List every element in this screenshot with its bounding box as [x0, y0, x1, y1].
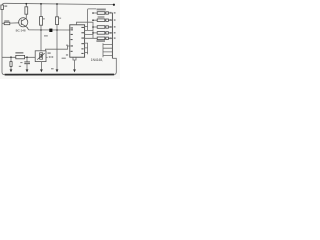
resistor R7 (vertical at x11): [10, 62, 12, 67]
junction dot bus row1: [92, 12, 94, 14]
wire: rail down through R5 to ground: [56, 4, 58, 70]
preset VR1: [35, 51, 46, 62]
ground arrow (IC): [73, 69, 76, 72]
resistor R3 (horizontal, transistor base): [4, 22, 10, 25]
wire: IC bottom pins to ground: [73, 57, 77, 69]
wire: x11 down to ground: [10, 57, 12, 69]
polarity label C2: [20, 62, 22, 63]
diode D1 (dark blob in bus): [49, 29, 52, 32]
ground arrow (x11): [10, 69, 13, 72]
resistor R5 (vertical at x57): [56, 17, 59, 25]
svg-text:BC 548: BC 548: [16, 29, 26, 33]
op-amp U1 (IC body): [70, 25, 85, 57]
junction dot bus row4: [92, 32, 94, 34]
wire: rail down through R4 to preset: [40, 4, 42, 52]
junction dot (x57 on bus): [56, 29, 58, 31]
node A junction dot (x41 on bus): [40, 29, 42, 31]
junction dot (top rail x57): [56, 3, 58, 5]
wire: preset bottom pin to ground: [40, 61, 42, 69]
small label right of R7: [19, 66, 21, 67]
wire: rail to R2 to collector: [25, 4, 27, 19]
resistor R2 (vertical, collector): [25, 7, 28, 14]
capacitor C2: [26, 57, 28, 61]
wire: top supply rail: [2, 3, 114, 6]
connector bracket: [111, 13, 113, 59]
wire: IC top pin riser and feed: [77, 22, 94, 38]
output row 4: wire + resistor: [93, 32, 112, 34]
pin 7 label mark: [66, 54, 68, 55]
wire: preset right pin + marks: [46, 56, 48, 58]
junction dot bus row3: [92, 26, 94, 28]
small label left of ground arrow: [51, 68, 54, 69]
pin number marks inside IC left: [71, 27, 73, 28]
pin 5 label mark: [66, 45, 68, 46]
label above connector: [96, 40, 105, 42]
output row 2: wire + resistor: [93, 19, 112, 21]
wire: IC lower right pins: [85, 43, 88, 54]
wire: bottom-right corner riser: [112, 58, 116, 74]
small label under bus: [44, 35, 48, 36]
small label right of R4: [43, 18, 45, 19]
label under IC bottom-left: [62, 58, 66, 59]
output row 1: wire + resistor: [93, 12, 112, 14]
wire: bottom ground rail: [5, 74, 115, 76]
junction dot (top rail / R2): [25, 3, 27, 5]
pin number marks inside IC right: [81, 27, 84, 28]
wire: base wire from left rail to Q1: [2, 22, 19, 25]
resistor R1 (on left rail, top): [1, 5, 4, 10]
output row 5: wire + resistor: [93, 37, 112, 39]
wire: IC right pins to bus x93: [85, 30, 93, 38]
terminal dot (top rail end): [113, 4, 115, 6]
svg-text:1N4148,: 1N4148,: [91, 58, 103, 62]
connector CON1 bus: [102, 43, 104, 57]
ground arrow (preset): [40, 69, 43, 72]
wire: left supply rail: [2, 6, 5, 75]
resistor R4 (vertical at x41): [40, 17, 43, 26]
pin 5 stub left of IC: [67, 45, 70, 47]
transistor Q1 BC548: [19, 18, 29, 30]
output row 3: wire + resistor: [93, 26, 112, 28]
connector pins: [103, 45, 112, 56]
wire: lower-left net y=57.3: [2, 56, 35, 58]
value label R1: [4, 5, 7, 6]
wire: emitter bus y=30: [29, 29, 70, 31]
wire: preset wiper to IC pin 5: [46, 46, 68, 51]
junction dot bus row2: [92, 19, 94, 21]
junction dot (top rail x41): [40, 3, 42, 5]
ground arrow (x57): [56, 69, 59, 72]
wire: IC pin1 riser to y9 feed: [85, 9, 97, 31]
ground arrow (C2): [26, 69, 29, 72]
junction dot (x27 lower net): [26, 56, 28, 58]
junction dot (x11 lower net): [10, 56, 12, 58]
value label R6: [15, 52, 23, 54]
resistor R6 (horizontal, lower left): [16, 55, 25, 58]
background: [0, 0, 120, 79]
value label R3: [4, 20, 9, 21]
